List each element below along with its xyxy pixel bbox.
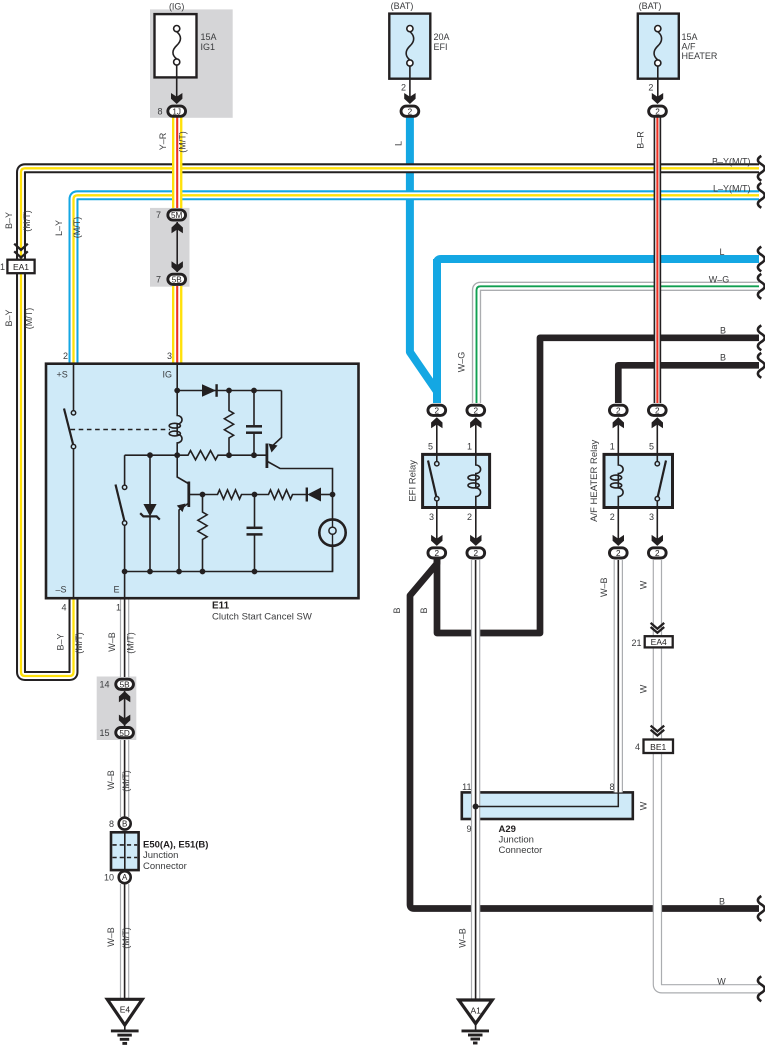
- fuse lead to oval 2: [409, 66, 411, 101]
- wire Y-R from 5B to E11 IG: [172, 286, 182, 364]
- connector EA4 box with chevron arrow: [645, 623, 673, 648]
- wire collector corner down: [328, 469, 333, 495]
- oval connector 2 (A/F fuse): [649, 106, 667, 116]
- svg-text:B–Y: B–Y: [4, 212, 14, 229]
- wire W-B from 5D to junction connector circle B: [120, 740, 129, 817]
- svg-text:E11: E11: [212, 600, 230, 611]
- svg-text:B–R: B–R: [636, 131, 646, 149]
- svg-text:2: 2: [435, 407, 440, 416]
- svg-text:(M/T): (M/T): [126, 632, 136, 654]
- node: [226, 452, 232, 458]
- transistor Q2: [177, 455, 203, 571]
- oval connector 2 (A/F relay pin3 bottom): [648, 548, 666, 558]
- svg-text:2: 2: [610, 512, 615, 522]
- continuation squiggle B-Y: [758, 156, 765, 181]
- svg-text:B: B: [419, 607, 429, 613]
- node IG: [174, 388, 180, 394]
- circle connector A: [119, 871, 131, 883]
- oval connector 2 (EFI relay pin5 top): [428, 405, 446, 415]
- svg-text:(M/T): (M/T): [24, 308, 34, 330]
- svg-text:B–Y(M/T): B–Y(M/T): [712, 156, 751, 166]
- wire B thick: second horizontal to A/F relay pin 1: [618, 365, 759, 403]
- lamp: [319, 495, 345, 572]
- svg-text:W–B: W–B: [599, 578, 609, 598]
- EFI relay box: [423, 454, 490, 507]
- wire L (blue) horizontal to right edge: [437, 259, 759, 270]
- node: [147, 452, 153, 458]
- svg-text:(M/T): (M/T): [22, 210, 32, 232]
- svg-text:2: 2: [648, 83, 653, 93]
- svg-text:8: 8: [157, 106, 162, 116]
- wire W-B from circle A to ground E4: [120, 884, 129, 1000]
- svg-text:IG1: IG1: [201, 42, 216, 52]
- fuse 15A A/F HEATER: [638, 14, 679, 79]
- svg-text:B: B: [122, 820, 127, 829]
- oval connector 2 (A/F relay pin1 top): [609, 405, 627, 415]
- svg-text:10: 10: [104, 873, 114, 883]
- svg-text:B–Y: B–Y: [4, 309, 14, 326]
- svg-text:EFI Relay: EFI Relay: [408, 460, 419, 502]
- svg-text:L: L: [394, 141, 404, 146]
- svg-text:W: W: [639, 580, 649, 589]
- svg-text:(IG): (IG): [169, 2, 185, 12]
- oval connector 5D: [116, 728, 134, 738]
- node: [252, 569, 258, 575]
- svg-text:1J: 1J: [172, 107, 181, 116]
- node: [330, 492, 336, 498]
- svg-text:A/F HEATER Relay: A/F HEATER Relay: [589, 439, 600, 521]
- wire W-B from A/F relay pin 2 to A29 pin 8: [614, 560, 623, 792]
- svg-text:Junction: Junction: [499, 834, 534, 845]
- continuation squiggle W: [758, 976, 765, 1001]
- svg-text:2: 2: [467, 512, 472, 522]
- fuse 20A EFI: [389, 14, 430, 79]
- svg-text:B: B: [719, 896, 725, 906]
- svg-text:2: 2: [616, 549, 621, 558]
- svg-text:20A: 20A: [434, 32, 450, 42]
- svg-text:+S: +S: [57, 370, 68, 380]
- wire W-B from EFI relay pin 2 through A29 to ground A1: [471, 560, 480, 999]
- svg-text:W–G: W–G: [457, 352, 467, 373]
- wire B thick: diagonal branch down to bottom right edge: [410, 553, 759, 909]
- wire B-Y horizontal + left vertical through EA1 + bottom jog to E11 -S: [21, 168, 759, 676]
- A/F heater relay box: [604, 454, 673, 507]
- svg-text:E4: E4: [120, 1005, 131, 1015]
- relay coil L1: [169, 391, 182, 456]
- wire W from A/F relay pin 3 to EA4: [653, 560, 662, 636]
- arrow into oval 2: [404, 93, 415, 104]
- svg-text:W–B: W–B: [107, 632, 117, 652]
- node: [147, 569, 153, 575]
- svg-text:W–B: W–B: [458, 928, 468, 948]
- svg-text:–S: –S: [56, 584, 67, 594]
- svg-text:Connector: Connector: [143, 861, 187, 872]
- oval connector 5B (lower pair): [116, 679, 134, 689]
- svg-text:W: W: [639, 684, 649, 693]
- wire W from BE1 down and right to edge: [657, 753, 759, 989]
- resistor R5: [255, 490, 307, 499]
- svg-text:5D: 5D: [119, 729, 130, 738]
- connector pair link 5B-5D: [119, 691, 130, 726]
- wire L (blue) from EFI fuse down and to EFI relay: [410, 114, 437, 403]
- node: [200, 492, 206, 498]
- svg-text:B: B: [720, 353, 726, 363]
- junction connector A29 internal link: [473, 792, 619, 809]
- svg-text:(M/T): (M/T): [121, 770, 131, 792]
- fuse lead to oval 2: [657, 66, 659, 101]
- svg-text:W–G: W–G: [709, 275, 730, 285]
- svg-text:7: 7: [156, 275, 161, 285]
- switch S1: [64, 409, 76, 449]
- svg-text:1: 1: [116, 602, 121, 612]
- svg-text:A1: A1: [470, 1006, 481, 1016]
- diode D1: [202, 384, 217, 397]
- svg-text:(BAT): (BAT): [391, 1, 414, 11]
- svg-text:(M/T): (M/T): [177, 131, 187, 153]
- svg-text:15A: 15A: [682, 32, 698, 42]
- junction connector A29 box: [462, 792, 633, 819]
- node: [226, 388, 232, 394]
- svg-text:A/F: A/F: [682, 42, 697, 52]
- svg-text:EA4: EA4: [651, 637, 667, 647]
- wire bottom rail: [125, 546, 333, 572]
- mechanical link dashed: [71, 429, 171, 431]
- capacitor C1: [246, 391, 262, 456]
- svg-text:3: 3: [167, 351, 172, 361]
- svg-text:5M: 5M: [171, 211, 183, 220]
- oval connector 5M: [168, 210, 186, 220]
- svg-text:HEATER: HEATER: [682, 51, 718, 61]
- junction connector E50/E51 box: [111, 832, 139, 870]
- svg-text:BE1: BE1: [650, 742, 666, 752]
- A/F relay coil: [611, 454, 624, 507]
- diode D2: [307, 488, 333, 502]
- gray panel behind connectors 5M/5B: [150, 208, 190, 287]
- node: [176, 569, 182, 575]
- capacitor C2: [247, 495, 263, 572]
- gray panel behind connectors 5B/5D: [97, 677, 137, 741]
- node: [200, 569, 206, 575]
- svg-text:1: 1: [0, 262, 5, 272]
- wire IG lead: [176, 364, 178, 391]
- circle connector B: [119, 818, 131, 830]
- oval connector 1J: [168, 106, 186, 116]
- svg-text:(M/T): (M/T): [72, 217, 82, 239]
- svg-text:11: 11: [462, 782, 471, 792]
- arrow into oval 2: [652, 93, 663, 104]
- svg-text:Y–R: Y–R: [158, 132, 168, 150]
- svg-text:Clutch Start Cancel SW: Clutch Start Cancel SW: [212, 612, 312, 623]
- svg-text:L: L: [719, 247, 724, 257]
- svg-text:2: 2: [655, 107, 660, 116]
- connector BE1 box with chevron arrow: [644, 726, 674, 753]
- oval connector 2 (A/F relay pin5 top): [648, 405, 666, 415]
- ground A1: [459, 1000, 493, 1043]
- svg-text:W: W: [717, 977, 726, 987]
- svg-text:7: 7: [156, 210, 161, 220]
- svg-text:(M/T): (M/T): [74, 632, 84, 654]
- wire base line: [125, 451, 267, 460]
- continuation squiggle L-Y: [758, 183, 765, 208]
- svg-text:15: 15: [99, 728, 109, 738]
- wire +S lead: [73, 364, 75, 411]
- resistor R4: [198, 495, 207, 572]
- connector EA1 box with chevron arrow: [7, 244, 34, 274]
- svg-text:(M/T): (M/T): [121, 927, 131, 949]
- svg-text:8: 8: [609, 782, 614, 792]
- continuation squiggle W-G: [758, 274, 765, 299]
- fuse 15A IG1: [155, 14, 197, 77]
- wire E pin lead: [124, 572, 126, 599]
- node: [174, 452, 180, 458]
- wire -S lead: [73, 449, 75, 598]
- connector pair link 5M-5B: [172, 222, 183, 272]
- svg-text:2: 2: [655, 407, 660, 416]
- arrow into 1J: [171, 93, 182, 104]
- wire W from EA4 to BE1: [653, 647, 662, 739]
- EFI relay coil: [468, 454, 481, 507]
- svg-text:2: 2: [408, 107, 413, 116]
- ground E4: [107, 999, 142, 1043]
- wire W-B from E11 E pin to 5B: [120, 598, 129, 677]
- svg-text:5B: 5B: [120, 681, 131, 690]
- continuation squiggle B1: [758, 325, 765, 350]
- oval connector 2 (EFI relay pin2 bottom): [467, 548, 485, 558]
- svg-text:IG: IG: [163, 370, 173, 380]
- wire W-G horizontal + vertical to EFI relay pin 1: [477, 286, 760, 403]
- fuse lead to 1J: [176, 65, 178, 101]
- wire top line: [177, 390, 281, 392]
- svg-text:A29: A29: [499, 824, 516, 835]
- arrows up into EFI relay top ovals: [431, 417, 481, 454]
- svg-text:2: 2: [63, 351, 68, 361]
- svg-text:E: E: [114, 584, 120, 594]
- svg-text:3: 3: [429, 512, 434, 522]
- transistor Q1 emitter arrow: [269, 444, 278, 453]
- switch S2: [116, 455, 127, 571]
- continuation squiggle B3: [758, 896, 765, 921]
- svg-text:B: B: [392, 607, 402, 613]
- svg-text:4: 4: [635, 742, 640, 752]
- node: [252, 492, 258, 498]
- arrows down into A/F relay bottom ovals: [613, 508, 663, 546]
- oval connector 2 (A/F relay pin2 bottom): [609, 548, 627, 558]
- wire B thick: EFI relay pin3 loop up to right edge: [437, 338, 759, 633]
- node: [251, 388, 257, 394]
- continuation squiggle B2: [758, 353, 765, 378]
- svg-text:EA1: EA1: [13, 262, 29, 272]
- svg-text:W–B: W–B: [106, 927, 116, 947]
- oval connector 5B: [168, 274, 186, 284]
- wire corner to Q1 emitter: [271, 391, 282, 448]
- svg-text:14: 14: [99, 680, 109, 690]
- svg-text:8: 8: [109, 819, 114, 829]
- svg-text:A: A: [122, 873, 128, 882]
- svg-text:15A: 15A: [201, 32, 217, 42]
- svg-text:2: 2: [474, 549, 479, 558]
- svg-text:B–Y: B–Y: [55, 633, 65, 650]
- svg-text:1: 1: [467, 442, 472, 452]
- A/F relay switch: [655, 454, 666, 507]
- resistor R3: [203, 490, 255, 499]
- svg-text:L–Y: L–Y: [54, 220, 64, 236]
- EFI relay switch: [428, 454, 439, 507]
- transistor Q1 collector: [268, 462, 329, 469]
- svg-text:E50(A), E51(B): E50(A), E51(B): [143, 840, 208, 851]
- svg-text:2: 2: [401, 83, 406, 93]
- gray panel behind IG fuse: [150, 9, 233, 117]
- oval connector 2 (EFI relay pin1 top): [467, 405, 485, 415]
- svg-text:W–B: W–B: [106, 770, 116, 790]
- svg-text:B: B: [720, 326, 726, 336]
- svg-text:EFI: EFI: [434, 42, 448, 52]
- svg-text:L–Y(M/T): L–Y(M/T): [713, 183, 751, 193]
- svg-text:2: 2: [435, 549, 440, 558]
- continuation squiggle L: [758, 247, 765, 272]
- wire B-R from A/F fuse to A/F relay pin 5: [654, 116, 662, 403]
- svg-text:2: 2: [474, 407, 479, 416]
- svg-text:9: 9: [466, 824, 471, 834]
- svg-text:21: 21: [631, 638, 641, 648]
- svg-text:1: 1: [610, 442, 615, 452]
- node: [122, 569, 128, 575]
- node: [251, 452, 257, 458]
- svg-text:5: 5: [649, 442, 654, 452]
- svg-text:W: W: [639, 801, 649, 810]
- svg-text:4: 4: [61, 602, 66, 612]
- svg-text:5: 5: [428, 442, 433, 452]
- svg-text:3: 3: [649, 512, 654, 522]
- svg-text:Junction: Junction: [143, 850, 178, 861]
- wire Y-R from 1J to 5M: [172, 116, 182, 208]
- arrows up into A/F relay top ovals: [613, 417, 663, 454]
- E11 Clutch Start Cancel SW box: [46, 364, 359, 599]
- svg-text:2: 2: [655, 549, 660, 558]
- wire L-Y horizontal + vertical to E11 +S: [74, 195, 760, 364]
- transistor Q1 base bar: [265, 444, 268, 469]
- svg-text:2: 2: [616, 407, 621, 416]
- svg-text:Connector: Connector: [499, 845, 543, 856]
- svg-text:(BAT): (BAT): [639, 1, 662, 11]
- zener diode ZD1: [140, 455, 160, 571]
- oval connector 2 (EFI relay pin3 bottom): [428, 548, 446, 558]
- svg-text:5B: 5B: [172, 276, 183, 285]
- arrows down into EFI relay bottom ovals: [431, 508, 481, 546]
- oval connector 2 (EFI fuse): [401, 106, 419, 116]
- resistor R1: [224, 391, 233, 456]
